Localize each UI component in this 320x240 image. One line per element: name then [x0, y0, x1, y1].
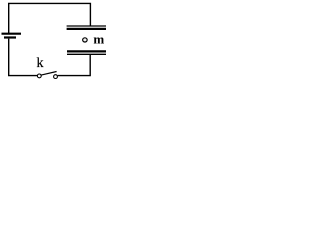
svg-text:k: k [37, 56, 44, 71]
svg-text:m: m [93, 32, 104, 47]
